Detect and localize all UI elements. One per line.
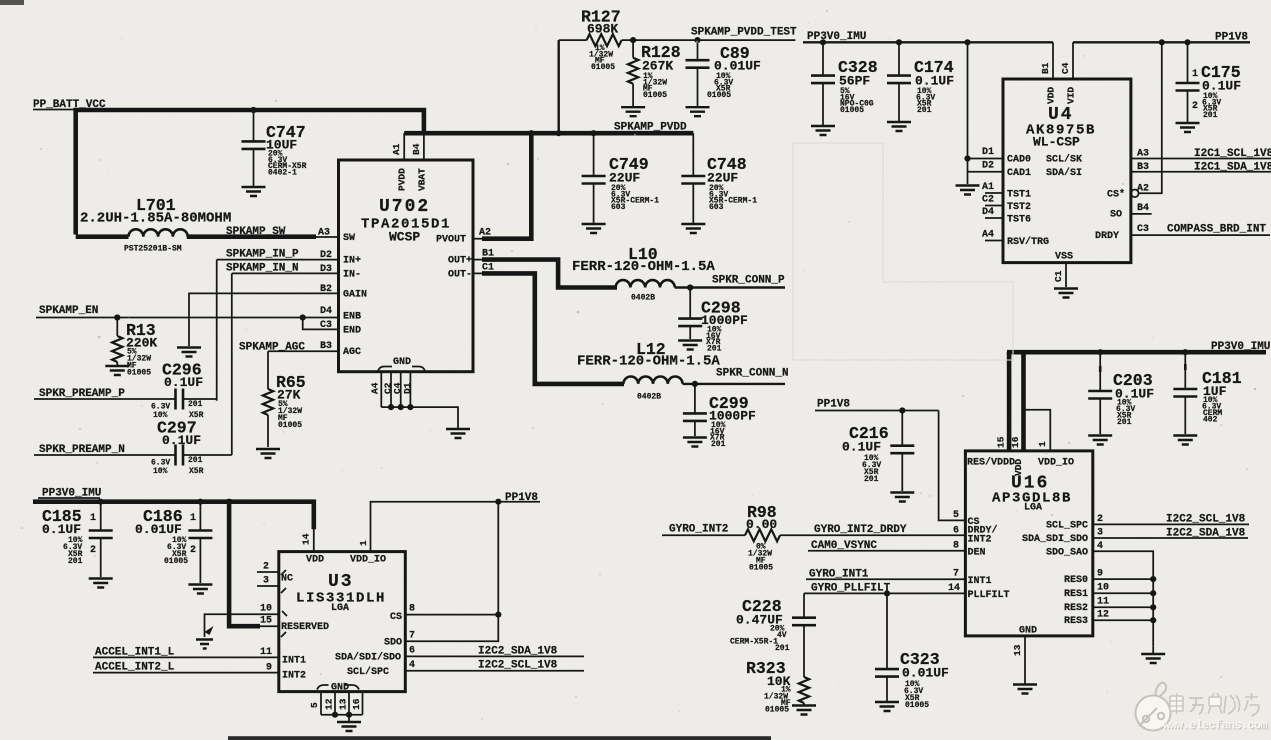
pin D1 <box>402 372 413 407</box>
U3 bottom GND bracket <box>317 683 359 694</box>
junction C186 <box>197 499 203 505</box>
svg-text:RSV/TRG: RSV/TRG <box>1007 236 1049 248</box>
pin C2 <box>383 372 394 407</box>
junction pin13 <box>346 712 352 718</box>
resistor R13 <box>112 318 157 378</box>
svg-text:01005: 01005 <box>591 63 615 72</box>
pin B4 SO <box>1110 203 1152 221</box>
ghost scan lines <box>793 143 1013 360</box>
pin 16 VDD riser <box>1010 352 1024 451</box>
svg-text:10%: 10% <box>153 467 168 476</box>
pin 15 RES/VDDD riser <box>996 352 1010 451</box>
pin 4 SDO_SAO <box>1046 541 1153 646</box>
resistor R323 <box>746 625 809 714</box>
bottom scan band <box>228 736 771 740</box>
capacitor C174 <box>887 42 954 121</box>
node ACCEL_INT1_L + pin 11 INT1 <box>93 647 306 667</box>
wire SPKR_CONN_P <box>675 275 785 288</box>
svg-text:PP1V8: PP1V8 <box>817 399 850 411</box>
junction C2 gnd <box>388 404 394 410</box>
svg-text:B1: B1 <box>1040 62 1051 74</box>
pin C2 TST2 <box>982 195 1031 214</box>
junction C89 <box>694 37 700 43</box>
svg-text:01005: 01005 <box>765 706 789 715</box>
svg-text:GND: GND <box>1019 626 1037 637</box>
svg-text:SPKAMP_PVDD: SPKAMP_PVDD <box>614 122 687 134</box>
svg-text:SCL/SK: SCL/SK <box>1046 154 1082 166</box>
svg-text:U3: U3 <box>328 572 354 592</box>
svg-text:0.1UF: 0.1UF <box>842 440 881 455</box>
U702 bottom GND bracket <box>378 357 425 371</box>
junction PP1V8 U3 <box>495 499 501 505</box>
svg-text:PST25201B-SM: PST25201B-SM <box>124 245 182 254</box>
junction CS riser <box>1159 39 1165 45</box>
svg-text:01005: 01005 <box>905 701 929 710</box>
svg-text:WL-CSP: WL-CSP <box>1033 135 1080 150</box>
svg-text:A3: A3 <box>318 228 330 239</box>
ground C185 <box>89 579 113 588</box>
wire PVOUT <box>473 238 484 240</box>
svg-text:201: 201 <box>1203 111 1218 120</box>
svg-text:6: 6 <box>409 646 415 657</box>
svg-text:B4: B4 <box>411 143 422 155</box>
svg-text:RES0: RES0 <box>1064 575 1088 586</box>
pin 7 SDO <box>384 631 415 649</box>
svg-text:CAD1: CAD1 <box>1007 168 1031 179</box>
wire PP1V8 top <box>1073 32 1250 44</box>
ground U3 <box>337 715 361 731</box>
svg-text:INT2: INT2 <box>282 671 306 682</box>
wire RESERVED riser <box>229 499 260 626</box>
wire GAIN to ground <box>189 293 339 346</box>
pin 2 SCL_SPC + wire I2C2_SCL_1V8 <box>1046 514 1249 532</box>
ground C216 <box>890 493 914 502</box>
IC U702 <box>339 160 474 372</box>
wire SPKAMP_AGC <box>239 342 339 354</box>
svg-text:2: 2 <box>1097 514 1103 525</box>
node PP1V8 mid-right <box>815 399 939 411</box>
ground C328 <box>811 126 835 135</box>
svg-text:INT1: INT1 <box>282 656 306 667</box>
capacitor C297 <box>151 419 232 477</box>
IC U3 <box>279 552 406 692</box>
svg-text:4: 4 <box>409 660 415 671</box>
svg-text:CS: CS <box>390 612 402 623</box>
svg-text:SDO_SAO: SDO_SAO <box>1046 548 1088 559</box>
svg-text:01005: 01005 <box>707 91 731 100</box>
watermark text 电子发烧友 <box>1170 693 1259 716</box>
IC U16 <box>965 451 1092 636</box>
wire END elbow <box>303 318 339 330</box>
pin 2 NC <box>257 562 279 573</box>
pin D1 CAD0 <box>982 147 1031 166</box>
svg-text:1: 1 <box>90 513 96 524</box>
pin B1 VDD <box>1040 42 1057 104</box>
svg-text:SDA_SDI_SDO: SDA_SDI_SDO <box>1022 534 1088 545</box>
svg-text:7: 7 <box>953 569 959 580</box>
svg-text:11: 11 <box>1097 597 1109 608</box>
svg-text:C2: C2 <box>982 195 994 206</box>
ground CAD1 <box>956 186 980 195</box>
svg-text:A1: A1 <box>391 143 402 155</box>
pin 15 RESERVED <box>260 616 329 638</box>
svg-text:2: 2 <box>190 545 196 556</box>
junction C4 gnd <box>398 404 404 410</box>
pin C4 VID <box>1060 42 1077 104</box>
pin A1 TST1 <box>982 182 1031 201</box>
svg-text:B4: B4 <box>1137 203 1149 214</box>
svg-text:1: 1 <box>358 540 369 546</box>
node PP3V0_IMU bottom-left <box>38 488 101 500</box>
svg-text:3: 3 <box>1097 528 1103 539</box>
ground C298 <box>678 341 702 350</box>
svg-text:SPKAMP_EN: SPKAMP_EN <box>39 305 98 317</box>
svg-text:C3: C3 <box>1137 224 1149 235</box>
wire GYRO_INT2_DRDY + pin 6 <box>780 524 998 546</box>
junction CAD0 <box>964 155 970 161</box>
pin D4 ENB <box>320 306 361 322</box>
node SPKR_PREAMP_P <box>34 388 176 400</box>
svg-text:RES/VDDD: RES/VDDD <box>967 457 1015 469</box>
watermark text www.elecfans.com <box>1163 719 1269 734</box>
pin A3 SCL/SK + wire I2C1_SCL_1V8 <box>1046 148 1271 166</box>
svg-text:14: 14 <box>948 583 960 594</box>
svg-text:CS*: CS* <box>1107 189 1125 201</box>
ground C747 <box>242 187 266 196</box>
svg-text:VDD_IO: VDD_IO <box>350 555 386 566</box>
ground C181 <box>1173 436 1197 445</box>
pin 5 <box>309 692 321 715</box>
wire PP1V8 to CS pin5 <box>939 411 966 521</box>
svg-text:SPKAMP_SW: SPKAMP_SW <box>226 226 286 238</box>
svg-text:VDD: VDD <box>1046 87 1057 104</box>
capacitor C296 <box>151 361 217 421</box>
svg-text:IN+: IN+ <box>343 256 361 267</box>
svg-text:0.01UF: 0.01UF <box>902 666 949 681</box>
svg-text:GAIN: GAIN <box>343 289 367 300</box>
ground RES bus <box>1141 646 1165 663</box>
pin 16 <box>351 692 363 715</box>
junction C749 tap <box>591 130 597 136</box>
svg-text:0.1UF: 0.1UF <box>42 522 81 537</box>
inductor L10 <box>572 245 715 303</box>
resistor R98 <box>745 503 780 573</box>
svg-text:01005: 01005 <box>278 421 302 430</box>
capacitor C186 <box>135 502 212 583</box>
svg-text:PLLFILT: PLLFILT <box>968 590 1010 601</box>
capacitor C216 <box>842 411 914 492</box>
IC U4 <box>1003 79 1131 263</box>
node ACCEL_INT2_L + pin 9 INT2 <box>93 662 306 682</box>
capacitor C89 <box>686 40 762 106</box>
junction R13 <box>114 314 120 320</box>
svg-text:1: 1 <box>1192 69 1198 80</box>
svg-text:201: 201 <box>1117 418 1132 427</box>
ground C203 <box>1088 436 1112 445</box>
svg-text:603: 603 <box>709 203 724 212</box>
svg-text:8: 8 <box>953 541 959 552</box>
pin B3 SDA/SI + wire I2C1_SDA_1V8 <box>1046 162 1271 180</box>
svg-text:10: 10 <box>260 604 272 615</box>
svg-text:FERR-120-OHM-1.5A: FERR-120-OHM-1.5A <box>577 354 720 370</box>
capacitor C749 <box>582 133 660 223</box>
wire U702 gnd bus <box>381 407 458 428</box>
svg-text:GND: GND <box>393 357 411 368</box>
svg-text:NC: NC <box>281 574 293 585</box>
svg-text:5: 5 <box>953 510 959 521</box>
node GYRO_INT1 + pin 7 INT1 <box>806 569 992 588</box>
node PP3V0_IMU top <box>803 31 1053 43</box>
svg-text:C4: C4 <box>1060 62 1071 74</box>
node PP_BATT_VCC <box>33 99 112 111</box>
svg-text:14: 14 <box>301 533 312 545</box>
svg-text:2: 2 <box>1192 101 1198 112</box>
ground C89 <box>686 107 710 116</box>
svg-text:A4: A4 <box>982 230 994 241</box>
corner scan artifact <box>0 0 24 5</box>
svg-text:C1: C1 <box>1053 270 1064 282</box>
junction C174 <box>896 39 902 45</box>
junction PVDD test riser <box>556 130 562 136</box>
svg-text:X5R: X5R <box>189 467 204 476</box>
wire PP3V0_IMU rail U3 <box>33 502 314 530</box>
svg-text:LGA: LGA <box>1024 503 1042 514</box>
ground C749 <box>582 224 606 233</box>
wire SPKAMP_SW <box>226 226 339 238</box>
capacitor C175 <box>1176 42 1242 122</box>
pin A2 CS* <box>1107 42 1162 200</box>
junction C203 <box>1097 349 1103 355</box>
svg-text:5: 5 <box>309 702 320 708</box>
junction C175 <box>1184 39 1190 45</box>
pin 3 NC <box>257 570 293 593</box>
junction C323 <box>884 590 890 596</box>
svg-text:SPKAMP_IN_P: SPKAMP_IN_P <box>226 249 299 261</box>
node CAM0_VSYNC + pin 8 DEN <box>808 540 986 559</box>
watermark logo elecfans <box>1136 683 1171 731</box>
wire SPKAMP_IN_P <box>217 249 339 401</box>
svg-text:WCSP: WCSP <box>389 230 420 245</box>
node SPKR_PREAMP_N <box>34 444 176 456</box>
svg-text:603: 603 <box>611 203 626 212</box>
wire SPKAMP_PVDD rail <box>404 131 693 136</box>
svg-text:13: 13 <box>338 698 349 710</box>
svg-text:www.elecfans.com: www.elecfans.com <box>1163 719 1268 733</box>
pin 13 GND <box>1012 626 1037 684</box>
svg-text:4: 4 <box>1097 541 1103 552</box>
junction D1 gnd <box>407 404 413 410</box>
svg-text:TST2: TST2 <box>1007 202 1031 213</box>
capacitor C323 <box>875 593 949 710</box>
svg-text:OUT-: OUT- <box>448 269 472 280</box>
svg-text:201: 201 <box>188 400 203 409</box>
svg-text:D1: D1 <box>982 147 994 158</box>
svg-text:1: 1 <box>190 513 196 524</box>
ground C186 <box>188 585 212 594</box>
svg-text:01005: 01005 <box>749 564 773 573</box>
pin D2 IN+ <box>320 250 361 267</box>
inductor L12 <box>577 340 720 402</box>
svg-text:AGC: AGC <box>343 347 361 358</box>
svg-text:TST6: TST6 <box>1007 215 1031 226</box>
ground C175 <box>1176 123 1200 132</box>
svg-text:COMPASS_BRD_INT: COMPASS_BRD_INT <box>1167 224 1266 236</box>
pin 12 <box>324 692 336 715</box>
svg-text:RES1: RES1 <box>1064 589 1088 600</box>
pin 3 SDA_SDI_SDO + wire I2C2_SDA_1V8 <box>1022 528 1248 546</box>
svg-text:PVOUT: PVOUT <box>436 235 466 246</box>
pin A3 SW <box>318 228 355 245</box>
svg-text:SPKAMP_PVDD_TEST: SPKAMP_PVDD_TEST <box>691 27 797 39</box>
svg-text:D4: D4 <box>320 306 332 317</box>
wire PP_BATT_VCC rail <box>76 110 424 235</box>
svg-text:I2C2_SCL_1V8: I2C2_SCL_1V8 <box>478 660 558 672</box>
svg-text:D2: D2 <box>982 161 994 172</box>
node PP1V8 mid-left <box>498 492 540 504</box>
svg-text:201: 201 <box>917 106 932 115</box>
ground R65 <box>256 449 280 458</box>
pin B1 OUT+ <box>448 249 494 267</box>
junction C181 <box>1182 349 1188 355</box>
ground R13 <box>105 366 129 375</box>
svg-text:LGA: LGA <box>331 603 349 614</box>
capacitor C203 <box>1088 352 1154 434</box>
pin 1 VDD_IO jog <box>1024 410 1051 451</box>
pin 8 CS <box>390 604 498 624</box>
svg-text:6: 6 <box>953 526 959 537</box>
svg-text:SCL/SPC: SCL/SPC <box>347 666 389 678</box>
svg-text:RESERVED: RESERVED <box>281 622 329 633</box>
junction RESERVED riser <box>226 499 232 505</box>
svg-text:15: 15 <box>996 436 1007 448</box>
capacitor C328 <box>811 42 878 125</box>
svg-text:VSS: VSS <box>1055 252 1073 263</box>
pin 5 CS <box>953 510 980 528</box>
svg-text:SPKR_CONN_N: SPKR_CONN_N <box>716 368 789 380</box>
pin 9 RES0 <box>1064 569 1156 587</box>
node GYRO_INT2 <box>662 524 745 536</box>
svg-text:VBAT: VBAT <box>417 168 428 191</box>
svg-text:SDA/SI: SDA/SI <box>1046 167 1082 179</box>
svg-text:VDD: VDD <box>306 555 324 566</box>
svg-text:CERM-X5R-1: CERM-X5R-1 <box>730 638 778 647</box>
pin 11 RES2 <box>1064 597 1156 615</box>
svg-text:201: 201 <box>68 557 83 566</box>
svg-text:15: 15 <box>260 616 272 627</box>
svg-text:10: 10 <box>1097 583 1109 594</box>
svg-text:1: 1 <box>1037 441 1048 447</box>
capacitor C185 <box>42 502 113 577</box>
node SPKAMP_EN <box>36 305 339 318</box>
ground C299 <box>683 438 707 447</box>
svg-text:2: 2 <box>263 562 269 573</box>
svg-text:D4: D4 <box>982 207 994 218</box>
pin 6 SDA/SDI/SDO + wire I2C2_SDA_1V8 <box>335 646 584 664</box>
svg-text:SW: SW <box>343 233 355 244</box>
wire OUT+ <box>473 259 484 261</box>
svg-text:DRDY: DRDY <box>1095 231 1119 242</box>
ground U4 VSS <box>1054 289 1078 298</box>
svg-text:ACCEL_INT2_L: ACCEL_INT2_L <box>95 662 175 674</box>
capacitor C181 <box>1173 352 1241 434</box>
svg-text:0.1UF: 0.1UF <box>164 375 203 390</box>
svg-text:SPKR_CONN_P: SPKR_CONN_P <box>712 275 785 287</box>
wire SPKR_CONN_N <box>683 368 789 384</box>
svg-text:CS: CS <box>968 517 980 528</box>
svg-text:GYRO_INT2_DRDY: GYRO_INT2_DRDY <box>814 524 907 536</box>
pin C1 VSS <box>1053 252 1073 288</box>
wire SPKAMP_IN_N <box>226 262 339 455</box>
capacitor C748 <box>681 133 757 223</box>
resistor R127 <box>559 8 633 72</box>
wire SPKAMP_PVDD_TEST <box>633 27 797 41</box>
svg-text:VID: VID <box>1066 87 1077 104</box>
pin 14 VDD <box>301 533 325 565</box>
svg-text:PVDD: PVDD <box>397 168 408 191</box>
pin A4 <box>370 372 382 407</box>
svg-text:9: 9 <box>1097 569 1103 580</box>
svg-text:U702: U702 <box>379 197 430 217</box>
svg-text:01005: 01005 <box>164 557 188 566</box>
svg-text:0402B: 0402B <box>637 393 661 402</box>
svg-text:TST1: TST1 <box>1007 190 1031 201</box>
svg-text:402: 402 <box>1203 416 1218 425</box>
wire pin14 riser <box>313 528 315 552</box>
ground pin10 arrow <box>196 626 214 649</box>
wire U3 gnd bus <box>321 714 363 716</box>
svg-text:RES2: RES2 <box>1064 603 1088 614</box>
svg-text:CAD0: CAD0 <box>1007 155 1031 166</box>
pin C4 <box>392 372 403 407</box>
pin D3 IN- <box>320 264 361 280</box>
junction C185 <box>98 499 104 505</box>
pin C3 DRDY + wire COMPASS_BRD_INT <box>1095 224 1270 242</box>
svg-text:201: 201 <box>707 344 722 353</box>
svg-text:ENB: ENB <box>343 311 361 322</box>
pin D4 TST6 <box>982 207 1031 226</box>
pin 12 RES3 <box>1064 610 1156 628</box>
svg-text:12: 12 <box>1097 610 1109 621</box>
svg-text:201: 201 <box>775 644 790 653</box>
ground U702 <box>446 429 470 438</box>
pin 13 <box>338 692 350 715</box>
svg-text:IN-: IN- <box>343 269 361 280</box>
svg-text:16: 16 <box>1010 436 1021 448</box>
pin B4 VBAT <box>411 133 428 191</box>
svg-text:4V: 4V <box>777 631 787 640</box>
svg-text:DEN: DEN <box>968 548 986 559</box>
svg-text:SDO: SDO <box>384 638 402 649</box>
pin B3 AGC <box>320 341 361 358</box>
svg-text:0.1UF: 0.1UF <box>162 433 201 448</box>
svg-text:2: 2 <box>90 545 96 556</box>
capacitor C299 <box>683 384 756 449</box>
svg-text:SO: SO <box>1110 210 1122 221</box>
ground R128 <box>621 107 645 116</box>
svg-text:01005: 01005 <box>643 91 667 100</box>
svg-text:END: END <box>343 325 361 336</box>
junction END <box>300 314 306 320</box>
svg-text:11: 11 <box>260 647 272 658</box>
ground GAIN <box>177 348 201 357</box>
svg-text:9: 9 <box>266 663 272 674</box>
capacitor C298 <box>678 288 748 354</box>
svg-text:FERR-120-OHM-1.5A: FERR-120-OHM-1.5A <box>572 259 715 275</box>
wire OUT- <box>473 272 484 274</box>
inductor L701 <box>76 196 316 254</box>
junction R128 <box>630 37 636 43</box>
pin C3 END <box>320 320 361 336</box>
